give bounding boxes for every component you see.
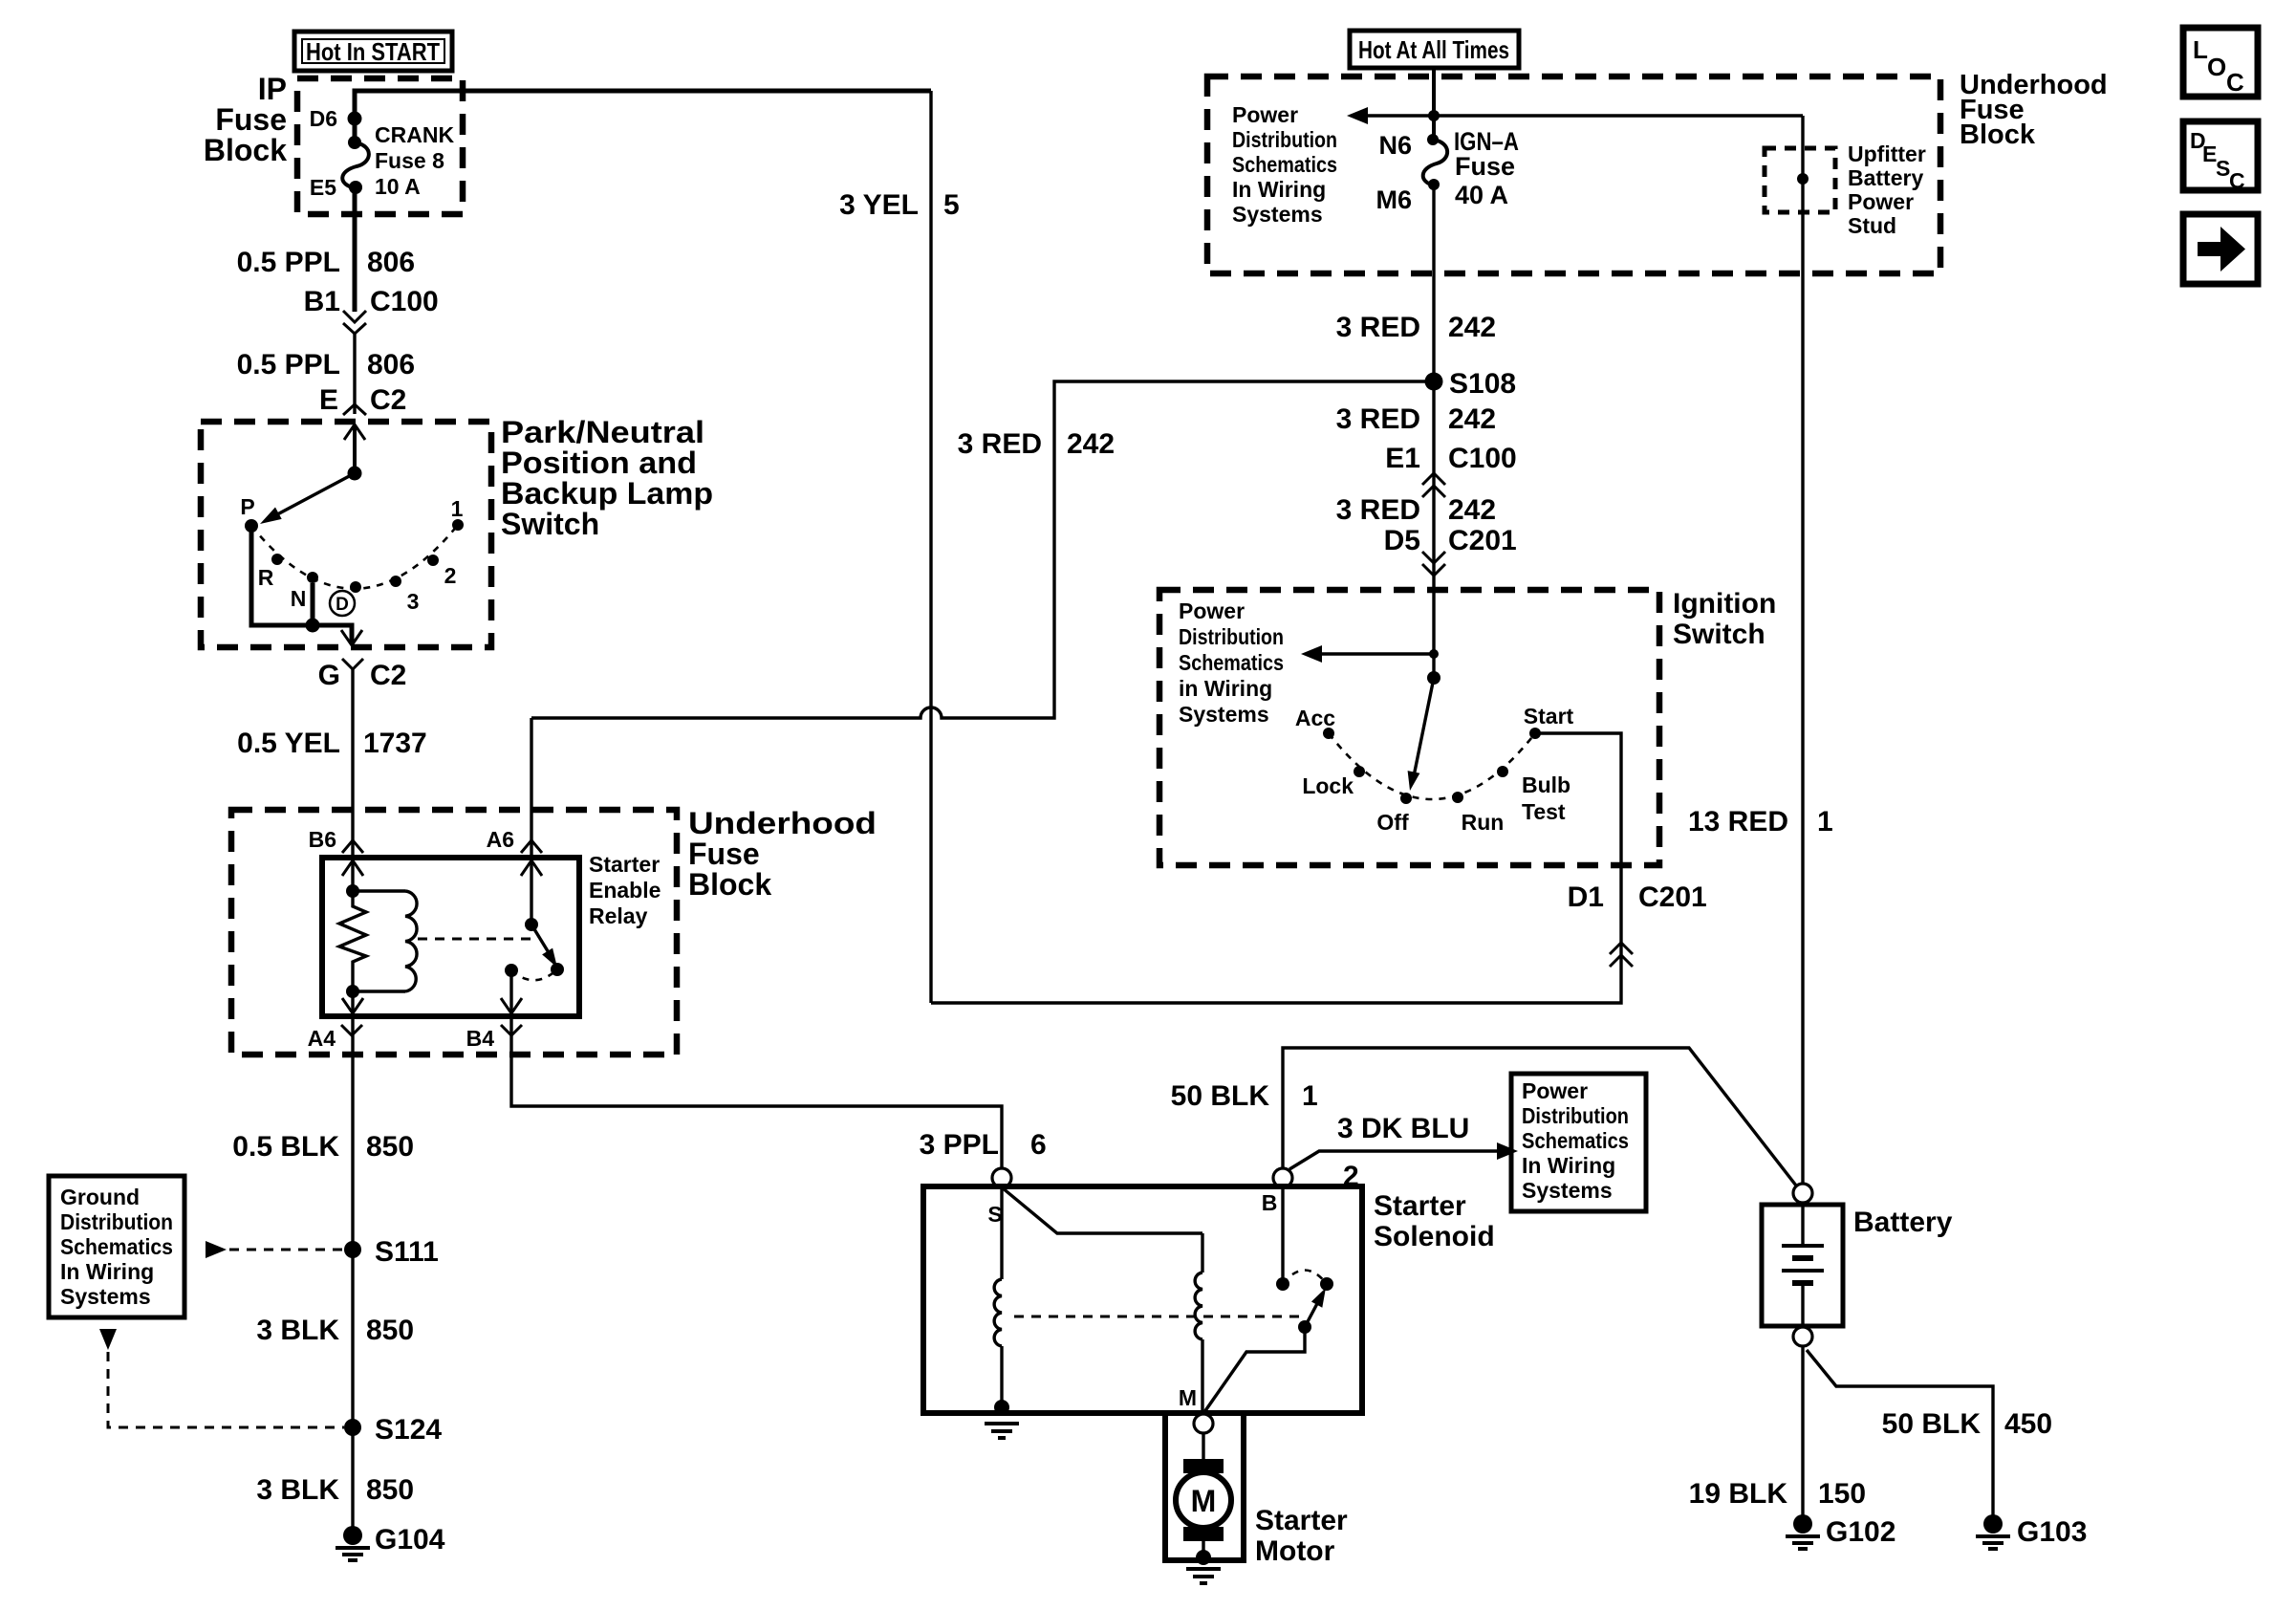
label 19 BLK 150 xyxy=(1689,1478,1866,1510)
solenoid coil ground xyxy=(985,1424,1019,1438)
wire C100 to C2 xyxy=(353,334,356,414)
starter motor bracket xyxy=(1165,1416,1244,1560)
svg-text:3 PPL: 3 PPL xyxy=(920,1129,999,1161)
svg-text:242: 242 xyxy=(1067,428,1115,460)
svg-text:1: 1 xyxy=(1817,806,1833,838)
underhood fuse block top dashed box xyxy=(1207,76,1940,273)
svg-text:G102: G102 xyxy=(1826,1516,1895,1548)
ignition rotor arm xyxy=(1408,671,1440,791)
contact P xyxy=(240,494,258,533)
wire S108 branch to A6 xyxy=(531,381,1434,718)
svg-text:Power: Power xyxy=(1179,598,1245,623)
svg-text:3 RED: 3 RED xyxy=(958,428,1042,460)
svg-text:3 RED: 3 RED xyxy=(1336,403,1420,435)
wire 3 DK BLU ref xyxy=(1289,1113,1518,1192)
svg-text:Test: Test xyxy=(1522,799,1566,824)
power distribution note box bottom xyxy=(1511,1074,1646,1211)
svg-text:3: 3 xyxy=(407,589,420,614)
svg-text:Battery: Battery xyxy=(1853,1207,1953,1238)
svg-text:Systems: Systems xyxy=(1232,202,1323,227)
svg-text:3 RED: 3 RED xyxy=(1336,312,1420,343)
icon box arrow xyxy=(2183,214,2258,284)
node S111 xyxy=(344,1236,439,1268)
svg-text:Fuse: Fuse xyxy=(215,102,287,137)
svg-text:G104: G104 xyxy=(375,1524,445,1556)
svg-text:Solenoid: Solenoid xyxy=(1374,1221,1495,1252)
wire P to N junction to exit xyxy=(251,532,362,645)
svg-text:Power: Power xyxy=(1232,102,1298,127)
underhood fuse block dashed box xyxy=(231,810,677,1055)
svg-text:150: 150 xyxy=(1818,1478,1866,1510)
pin B6 xyxy=(309,827,363,853)
svg-text:242: 242 xyxy=(1448,403,1496,435)
header box Hot In START xyxy=(294,32,452,71)
svg-text:D: D xyxy=(336,595,349,615)
solenoid hold-in coil xyxy=(1195,1233,1202,1414)
svg-text:0.5 PPL: 0.5 PPL xyxy=(237,349,340,381)
contact 1 xyxy=(451,496,464,531)
svg-text:450: 450 xyxy=(2004,1408,2052,1440)
terminal M circle xyxy=(1179,1385,1213,1433)
label 3 RED 242 above S108 xyxy=(1336,312,1496,343)
wire to upfitter stud xyxy=(1434,114,1803,117)
label 3 YEL 5 xyxy=(839,189,960,221)
contact Lock xyxy=(1302,766,1365,798)
relay resistor xyxy=(339,891,366,991)
ground G103 xyxy=(1976,1514,2087,1549)
fuse CRANK Fuse 8 10A xyxy=(342,122,454,199)
svg-text:Run: Run xyxy=(1462,810,1505,835)
label 3 RED 242 below S108 xyxy=(1336,403,1496,435)
contact D circled xyxy=(330,581,361,616)
svg-text:Power: Power xyxy=(1848,189,1914,214)
svg-text:E5: E5 xyxy=(310,175,336,200)
svg-text:C: C xyxy=(2229,168,2245,193)
wire A6 drop xyxy=(530,718,532,858)
label 3 PPL 6 xyxy=(920,1129,1047,1161)
svg-text:B6: B6 xyxy=(309,827,336,852)
rotor arrow to P xyxy=(260,473,355,524)
header box Hot At All Times xyxy=(1350,31,1519,68)
relay switch blade xyxy=(531,925,564,976)
label 3 RED 242 third xyxy=(1336,494,1496,526)
ref arrow to power distribution xyxy=(1347,107,1434,124)
wire right feed to battery xyxy=(1801,116,1804,1184)
svg-text:19 BLK: 19 BLK xyxy=(1689,1478,1788,1510)
svg-text:E: E xyxy=(319,384,338,416)
svg-text:3 RED: 3 RED xyxy=(1336,494,1420,526)
svg-text:M6: M6 xyxy=(1375,185,1412,214)
relay coil pin B6 inside xyxy=(342,860,363,898)
svg-text:N6: N6 xyxy=(1378,131,1412,160)
relay switch A6 side xyxy=(521,860,542,931)
ignition feed wire and ref arrow xyxy=(1301,590,1439,678)
svg-text:Ignition: Ignition xyxy=(1673,588,1776,620)
svg-text:E1: E1 xyxy=(1385,443,1420,474)
svg-text:M: M xyxy=(1179,1385,1197,1410)
svg-text:Schematics: Schematics xyxy=(60,1234,173,1259)
svg-text:A6: A6 xyxy=(487,827,514,852)
wire E5 down to connector C100 xyxy=(353,187,357,312)
fuse IGN-A 40A xyxy=(1375,127,1519,214)
svg-text:850: 850 xyxy=(366,1474,414,1506)
starter solenoid box xyxy=(923,1186,1362,1413)
svg-text:1737: 1737 xyxy=(363,728,427,759)
relay linkage dashed xyxy=(418,938,532,941)
svg-text:13 RED: 13 RED xyxy=(1688,806,1788,838)
contact Start xyxy=(1524,704,1574,739)
svg-text:D5: D5 xyxy=(1384,525,1420,556)
svg-text:50 BLK: 50 BLK xyxy=(1171,1080,1270,1112)
svg-text:6: 6 xyxy=(1030,1129,1047,1161)
svg-text:0.5 YEL: 0.5 YEL xyxy=(237,728,340,759)
svg-text:Distribution: Distribution xyxy=(1522,1103,1629,1128)
label Park/Neutral Position and Backup Lamp Switch xyxy=(501,415,713,541)
contact Bulb Test xyxy=(1497,766,1570,824)
pin A6 xyxy=(487,827,542,853)
svg-text:0.5 PPL: 0.5 PPL xyxy=(237,247,340,278)
node E5 xyxy=(310,175,336,200)
svg-text:Starter: Starter xyxy=(1374,1190,1466,1222)
svg-text:806: 806 xyxy=(367,247,415,278)
ground distribution note box xyxy=(49,1176,184,1317)
svg-text:Schematics: Schematics xyxy=(1179,650,1284,675)
svg-text:1: 1 xyxy=(1302,1080,1318,1112)
svg-text:Switch: Switch xyxy=(501,507,599,541)
svg-text:806: 806 xyxy=(367,349,415,381)
label 13 RED 1 xyxy=(1688,806,1833,838)
svg-text:Bulb: Bulb xyxy=(1522,772,1570,797)
svg-text:R: R xyxy=(258,565,274,590)
contact 2 xyxy=(427,555,456,588)
svg-text:Systems: Systems xyxy=(1522,1178,1613,1203)
svg-text:C2: C2 xyxy=(370,384,406,416)
svg-text:In Wiring: In Wiring xyxy=(1232,177,1326,202)
connector E C2 xyxy=(319,384,406,416)
svg-text:C201: C201 xyxy=(1448,525,1517,556)
contact 3 xyxy=(390,576,419,614)
label 0.5 PPL 806 xyxy=(237,247,415,278)
label Ignition Switch xyxy=(1673,588,1776,650)
svg-text:In Wiring: In Wiring xyxy=(1522,1153,1615,1178)
svg-text:Switch: Switch xyxy=(1673,619,1765,650)
relay box xyxy=(322,858,579,1016)
contact Acc xyxy=(1295,706,1335,739)
wire battery negative to grounds xyxy=(1803,1346,1993,1518)
svg-text:A4: A4 xyxy=(308,1026,336,1051)
connector D5 C201 xyxy=(1384,525,1517,576)
label 3 BLK 850 xyxy=(256,1315,414,1346)
svg-text:Battery: Battery xyxy=(1848,165,1923,190)
svg-text:Ground: Ground xyxy=(60,1185,140,1209)
wire 3YEL vertical xyxy=(929,91,932,1003)
svg-text:G: G xyxy=(318,660,340,691)
label 50 BLK 450 xyxy=(1882,1408,2052,1440)
wire G C2 down to relay B6 xyxy=(351,669,354,858)
svg-text:Schematics: Schematics xyxy=(1232,152,1337,177)
svg-text:Systems: Systems xyxy=(1179,702,1269,727)
label Starter Solenoid xyxy=(1374,1190,1495,1252)
svg-text:Starter: Starter xyxy=(1255,1505,1348,1536)
solenoid linkage dashed xyxy=(1014,1316,1300,1318)
svg-text:Enable: Enable xyxy=(589,878,661,903)
label 0.5 BLK 850 xyxy=(232,1131,414,1163)
contact R xyxy=(258,554,283,590)
terminal S circle xyxy=(987,1168,1011,1227)
ground G102 xyxy=(1786,1514,1895,1549)
svg-text:In Wiring: In Wiring xyxy=(60,1259,154,1284)
svg-text:B: B xyxy=(1262,1190,1278,1215)
svg-text:Start: Start xyxy=(1524,704,1574,729)
node D6 xyxy=(310,106,362,131)
svg-text:3 YEL: 3 YEL xyxy=(839,189,919,221)
wire M6 down to ignition switch xyxy=(1432,185,1435,590)
svg-text:3 DK BLU: 3 DK BLU xyxy=(1337,1113,1469,1144)
node S124 xyxy=(344,1414,442,1446)
contact Run xyxy=(1452,792,1504,835)
label 0.5 YEL 1737 xyxy=(237,728,427,759)
dashed ref arrow to S124 xyxy=(99,1329,344,1427)
svg-text:Fuse: Fuse xyxy=(688,837,760,871)
svg-text:3 BLK: 3 BLK xyxy=(256,1474,339,1506)
svg-text:3 BLK: 3 BLK xyxy=(256,1315,339,1346)
svg-text:in Wiring: in Wiring xyxy=(1179,676,1272,701)
label 0.5 PPL 806 second xyxy=(237,349,415,381)
relay coil xyxy=(342,891,417,1013)
svg-text:S111: S111 xyxy=(375,1236,439,1268)
label Starter Motor xyxy=(1255,1505,1348,1567)
solenoid pull-in coil xyxy=(994,1187,1009,1415)
svg-text:Hot At All Times: Hot At All Times xyxy=(1358,35,1509,64)
ignition switch dashed box xyxy=(1159,590,1659,865)
svg-text:Relay: Relay xyxy=(589,903,648,928)
label Starter Enable Relay xyxy=(589,852,661,928)
svg-text:850: 850 xyxy=(366,1131,414,1163)
svg-text:Distribution: Distribution xyxy=(1232,127,1337,152)
wire A4 ground column xyxy=(351,1016,354,1530)
svg-text:B1: B1 xyxy=(304,286,340,317)
svg-text:Motor: Motor xyxy=(1255,1535,1335,1567)
svg-text:40 A: 40 A xyxy=(1455,181,1508,209)
label 3 RED 242 branch xyxy=(958,428,1115,460)
svg-text:C: C xyxy=(2226,68,2244,97)
svg-text:C100: C100 xyxy=(370,286,439,317)
svg-text:Hot In START: Hot In START xyxy=(306,37,440,66)
svg-text:Stud: Stud xyxy=(1848,213,1896,238)
terminal B circle xyxy=(1262,1168,1292,1215)
label 3 BLK 850 second xyxy=(256,1474,414,1506)
label Underhood Fuse Block right xyxy=(1960,70,2108,150)
svg-text:Position and: Position and xyxy=(501,446,697,480)
svg-text:242: 242 xyxy=(1448,494,1496,526)
svg-text:D1: D1 xyxy=(1568,881,1604,913)
svg-text:CRANK: CRANK xyxy=(375,122,454,147)
svg-text:Distribution: Distribution xyxy=(60,1209,173,1234)
icon box DESC xyxy=(2183,121,2258,193)
note text power distribution ignition xyxy=(1179,598,1284,727)
svg-text:Acc: Acc xyxy=(1295,706,1335,730)
wire from fuse D6 to 3YEL corner xyxy=(355,91,931,141)
dashed rotary arc xyxy=(251,525,458,589)
wire entering switch with up arrow xyxy=(344,424,365,481)
IP fuse block dashed box xyxy=(297,78,463,214)
svg-text:1: 1 xyxy=(451,496,464,521)
pin A4 xyxy=(308,1025,362,1051)
wire hot at all times down xyxy=(1428,68,1440,140)
battery box xyxy=(1762,1203,1953,1327)
battery negative circle xyxy=(1793,1327,1812,1346)
ignition dashed arc xyxy=(1329,733,1535,799)
label IP Fuse Block xyxy=(204,72,287,167)
svg-text:P: P xyxy=(240,494,254,519)
upfitter battery power stud dashed box xyxy=(1765,141,1926,238)
solenoid switch blade xyxy=(1204,1288,1326,1412)
svg-text:Block: Block xyxy=(204,133,287,167)
svg-text:Lock: Lock xyxy=(1302,773,1354,798)
pin B4 xyxy=(466,1025,522,1051)
svg-text:L: L xyxy=(2193,35,2208,64)
svg-text:Park/Neutral: Park/Neutral xyxy=(501,415,704,449)
note text power distribution top xyxy=(1232,102,1337,227)
svg-text:M: M xyxy=(1191,1484,1217,1518)
connector G C2 xyxy=(318,659,407,691)
wire B terminal up and right xyxy=(1283,1048,1796,1186)
svg-text:50 BLK: 50 BLK xyxy=(1882,1408,1982,1440)
park/neutral switch dashed box xyxy=(201,422,491,647)
svg-text:C201: C201 xyxy=(1638,881,1707,913)
connector D1 C201 xyxy=(1568,881,1707,967)
svg-text:Systems: Systems xyxy=(60,1284,151,1309)
contact Off xyxy=(1376,793,1412,835)
svg-text:10 A: 10 A xyxy=(375,174,421,199)
svg-text:242: 242 xyxy=(1448,312,1496,343)
svg-text:Underhood: Underhood xyxy=(688,806,877,840)
wire B4 to solenoid S xyxy=(511,1016,1002,1168)
svg-text:IP: IP xyxy=(258,72,287,106)
label 50 BLK 1 xyxy=(1171,1080,1318,1112)
node S108 xyxy=(1425,368,1517,400)
svg-text:Backup Lamp: Backup Lamp xyxy=(501,476,713,511)
svg-text:Schematics: Schematics xyxy=(1522,1128,1629,1153)
icon box LOC xyxy=(2183,28,2258,97)
svg-text:B4: B4 xyxy=(466,1026,495,1051)
relay switch contact B4 xyxy=(501,964,557,1013)
svg-text:C2: C2 xyxy=(370,660,406,691)
svg-text:G103: G103 xyxy=(2017,1516,2087,1548)
solenoid S diagonal feed xyxy=(1002,1187,1202,1233)
svg-text:S108: S108 xyxy=(1449,368,1516,400)
label Underhood Fuse Block left xyxy=(688,806,877,902)
svg-text:Off: Off xyxy=(1376,810,1409,835)
svg-text:O: O xyxy=(2207,53,2226,81)
svg-text:0.5 BLK: 0.5 BLK xyxy=(232,1131,339,1163)
svg-text:Fuse 8: Fuse 8 xyxy=(375,148,444,173)
ground G104 xyxy=(336,1524,445,1560)
wire start to D1 C201 down to 3YEL xyxy=(931,733,1621,1003)
svg-text:N: N xyxy=(291,586,307,611)
connector B1 C100 xyxy=(304,286,439,334)
dashed ref arrow to S111 xyxy=(206,1241,344,1258)
contact N xyxy=(291,572,318,611)
svg-text:Block: Block xyxy=(688,867,771,902)
svg-text:D6: D6 xyxy=(310,106,337,131)
svg-text:Upfitter: Upfitter xyxy=(1848,141,1926,166)
svg-text:C100: C100 xyxy=(1448,443,1517,474)
svg-text:S124: S124 xyxy=(375,1414,442,1446)
battery positive circle xyxy=(1793,1184,1812,1203)
svg-text:Starter: Starter xyxy=(589,852,660,877)
svg-text:Distribution: Distribution xyxy=(1179,624,1284,649)
svg-text:Power: Power xyxy=(1522,1078,1588,1103)
connector E1 C100 xyxy=(1385,443,1516,497)
solenoid B contact xyxy=(1276,1187,1333,1291)
svg-text:850: 850 xyxy=(366,1315,414,1346)
svg-text:Fuse: Fuse xyxy=(1455,152,1515,181)
svg-text:2: 2 xyxy=(444,563,457,588)
svg-text:5: 5 xyxy=(943,189,960,221)
starter motor xyxy=(1176,1433,1231,1583)
svg-text:Block: Block xyxy=(1960,120,2036,150)
